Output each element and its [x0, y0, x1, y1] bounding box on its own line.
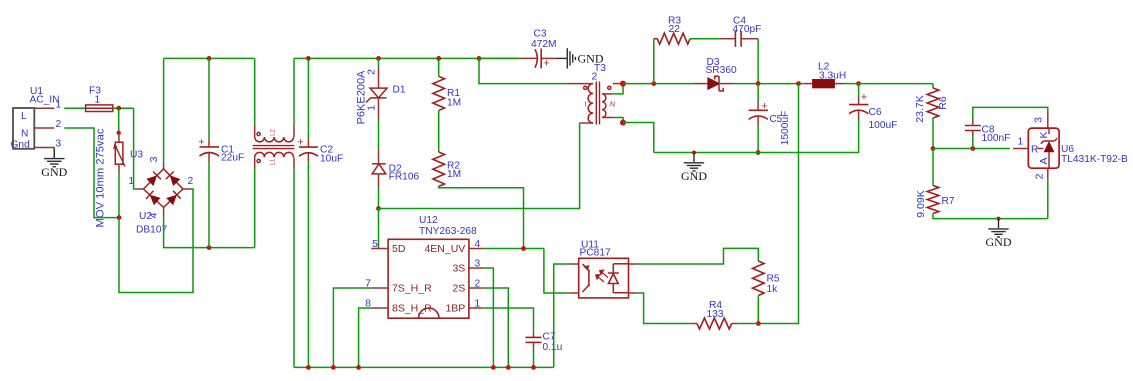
wire T3 secondary bottom elbow [613, 118, 623, 123]
wire R7 bottom / anode rail [933, 214, 1048, 219]
wire 2S down [484, 288, 509, 367]
resistor R2 1M [433, 152, 461, 186]
choke core [253, 145, 295, 147]
varistor U3 MOV [95, 128, 144, 227]
wire D2 to drain node [378, 188, 380, 209]
svg-text:1BP: 1BP [445, 303, 465, 315]
svg-text:3: 3 [475, 259, 481, 270]
capacitor C8 100nF [965, 119, 1011, 144]
svg-text:5: 5 [372, 238, 378, 250]
IC U6 TL431K-T92-B [1028, 128, 1059, 168]
wire opto emitter stub [569, 292, 578, 294]
ground GND (AC input) [44, 148, 64, 166]
ground GND (primary, rotated) [555, 48, 575, 68]
wire C1 top [208, 58, 210, 140]
wire L to fuse [64, 107, 85, 109]
svg-text:3S: 3S [452, 263, 465, 275]
resistor R7 9.09K [915, 149, 955, 218]
wire L2 to C6 [843, 83, 859, 85]
capacitor C2 10uF [297, 137, 343, 165]
svg-text:TNY263-268: TNY263-268 [419, 226, 477, 237]
svg-text:D1: D1 [393, 85, 406, 96]
wire MOV bottom [118, 173, 120, 218]
svg-text:U3: U3 [130, 150, 143, 161]
wire D1 top [378, 58, 380, 66]
junction C6 top [856, 81, 861, 86]
svg-text:5D: 5D [392, 243, 406, 255]
junction 8S [356, 365, 361, 370]
svg-text:2: 2 [56, 119, 62, 130]
wire EN to opto emitter [544, 249, 570, 294]
wire choke to bottom rail [293, 168, 295, 367]
wire C6 top [858, 84, 860, 97]
wire drain net [379, 123, 580, 209]
wire L to bridge pin1 [134, 108, 136, 189]
wire opto cathode to R4 [637, 293, 692, 324]
svg-text:1: 1 [475, 299, 481, 310]
junction C5/gnd rail [756, 150, 761, 155]
junction C4/C5 node [756, 81, 761, 86]
svg-text:10uF: 10uF [320, 154, 343, 165]
wire rail to choke top-left [254, 58, 256, 126]
svg-text:N: N [610, 102, 615, 109]
wire C5 bottom [757, 125, 759, 153]
wire C8 top to U6 K [973, 107, 1048, 119]
wire +DC rail left [164, 57, 255, 59]
svg-text:R5: R5 [767, 274, 780, 285]
svg-text:472M: 472M [531, 39, 556, 50]
fuse F3 [86, 86, 113, 112]
svg-text:100nF: 100nF [982, 133, 1011, 144]
svg-text:2: 2 [475, 279, 481, 290]
wire U1 pin3 to ground [53, 148, 55, 158]
svg-text:N: N [21, 129, 28, 140]
junction 3S [491, 365, 496, 370]
wire choke top-right to rail [293, 58, 295, 126]
wire C7 bottom [533, 349, 535, 368]
junction C8 bottom [970, 146, 975, 151]
wire choke bottom-left to DC- rail [254, 168, 256, 248]
wire U6 anode down [1047, 168, 1049, 179]
svg-text:3: 3 [148, 156, 160, 162]
capacitor C6 100uF [849, 91, 897, 131]
svg-text:L1: L1 [271, 158, 277, 165]
wire D3 to L2 [733, 83, 804, 85]
svg-text:9.09K: 9.09K [915, 190, 927, 217]
wire C6 bottom / secondary gnd rail [654, 119, 859, 153]
svg-text:L: L [21, 111, 27, 122]
junction 2S [506, 365, 511, 370]
inductor choke top winding [255, 126, 294, 142]
svg-text:22: 22 [669, 24, 681, 35]
svg-text:+: + [543, 58, 549, 70]
svg-text:1: 1 [129, 176, 135, 187]
svg-text:U12: U12 [419, 215, 438, 226]
svg-text:+: + [861, 91, 867, 103]
svg-text:R6: R6 [937, 96, 949, 110]
svg-text:C6: C6 [869, 107, 882, 118]
wire N to MOV node [64, 128, 119, 218]
wire bridge- rail [164, 217, 255, 248]
svg-text:1500uF: 1500uF [780, 111, 791, 146]
wire opto collector stub [569, 263, 578, 265]
svg-text:1k: 1k [767, 284, 779, 295]
junction C2/source [306, 365, 311, 370]
svg-text:4EN_UV: 4EN_UV [424, 243, 465, 255]
wire U6 pin3 stub [1047, 112, 1049, 128]
svg-text:8S_H_R: 8S_H_R [392, 303, 432, 315]
svg-text:470pF: 470pF [733, 24, 762, 35]
svg-text:SR360: SR360 [706, 65, 737, 76]
wire EN_UV net [484, 248, 544, 250]
svg-text:A: A [1038, 157, 1050, 164]
svg-text:3: 3 [56, 139, 62, 150]
svg-text:MOV 10mm 275vac: MOV 10mm 275vac [95, 128, 107, 227]
svg-text:FR106: FR106 [389, 172, 420, 183]
wire R1-R2 [438, 111, 440, 153]
wire C1 bottom [208, 161, 210, 248]
junction gnd [692, 151, 696, 155]
junction C2 top [306, 56, 311, 61]
svg-text:1: 1 [1018, 137, 1024, 148]
wire 3S down [484, 268, 494, 367]
wire T3 secondary top elbow [613, 84, 623, 94]
svg-text:GND: GND [41, 165, 67, 179]
svg-text:I: I [585, 102, 587, 109]
svg-text:GND: GND [681, 169, 707, 183]
svg-text:2: 2 [1034, 173, 1046, 179]
svg-text:0.1u: 0.1u [543, 342, 563, 353]
wire ref node [933, 148, 1010, 150]
wire BP to C7 [484, 308, 534, 332]
svg-text:7S_H_R: 7S_H_R [392, 283, 432, 295]
wire to MOV [118, 108, 120, 133]
capacitor C7 0.1u [526, 332, 563, 354]
wire opto to R5 top [637, 248, 758, 264]
junction gnd 2 [997, 217, 1001, 221]
junction feedback tap [796, 81, 801, 86]
wire rail to C3 [479, 57, 519, 59]
ground GND (secondary) [684, 153, 704, 171]
svg-text:2: 2 [592, 72, 598, 83]
wire fuse to bridge node [113, 107, 134, 109]
bridge rectifier U2 DB107 [136, 161, 191, 216]
svg-text:+: + [761, 100, 767, 112]
junction fuse/MOV node [116, 106, 121, 111]
junction drain node [376, 206, 381, 211]
wire R2 to EN node [439, 186, 524, 248]
IC U12 TNY263-268 [371, 239, 483, 318]
wire N loop to bridge pin2 [119, 189, 193, 293]
wire +DC rail right [294, 57, 519, 59]
wire C8 bottom [972, 136, 974, 149]
wire source rail to opto collector [554, 264, 570, 367]
svg-text:C3: C3 [534, 29, 547, 40]
wire D1 to D2 [378, 120, 380, 150]
svg-text:2: 2 [188, 176, 194, 187]
connector U1 AC_IN [11, 86, 62, 151]
resistor R3 22 [657, 16, 690, 45]
junction MOV top [117, 131, 121, 135]
svg-text:1: 1 [95, 95, 101, 106]
wire snubber left [653, 39, 655, 84]
resistor R4 133 [692, 300, 758, 329]
wire C5 top [757, 84, 759, 102]
wire R6 to ref node [932, 118, 934, 149]
junction T3 secondary top [620, 81, 626, 87]
svg-text:PC817: PC817 [580, 248, 611, 259]
junction C7 [531, 365, 536, 370]
svg-text:2S: 2S [452, 283, 465, 295]
junction ref node [931, 146, 936, 151]
capacitor C4 470pF [720, 16, 762, 47]
svg-text:+: + [297, 137, 303, 149]
capacitor C3 472M [519, 29, 556, 70]
junction snubber left [651, 81, 656, 86]
svg-text:K: K [1038, 131, 1050, 138]
wire opto cathode stub [629, 292, 638, 294]
wire 8S down [359, 308, 372, 367]
wire snubber right [757, 39, 759, 84]
svg-text:4: 4 [475, 239, 481, 250]
svg-text:L2: L2 [271, 129, 277, 136]
resistor R5 1k [753, 261, 780, 324]
transformer T3 [567, 63, 623, 125]
diode D1 P6KE200A [356, 67, 406, 125]
wire feedback to R4/R5 node [758, 84, 798, 324]
svg-text:23.7K: 23.7K [914, 95, 926, 122]
wire 7S down [333, 288, 371, 367]
wire R1 top [438, 58, 440, 76]
svg-text:R7: R7 [942, 196, 955, 207]
svg-text:100uF: 100uF [869, 120, 898, 131]
svg-text:3.3uH: 3.3uH [819, 71, 846, 82]
junction 7S [331, 365, 336, 370]
diode D3 SR360 [694, 57, 737, 91]
wire C2 top [307, 58, 309, 140]
wire source rail [294, 366, 554, 368]
svg-text:22uF: 22uF [221, 153, 244, 164]
wire C2 bottom [307, 162, 309, 368]
diode D2 FR106 [372, 150, 419, 188]
wire to U12 pin5 [378, 209, 380, 249]
junction C3 tap [477, 56, 482, 61]
junction D1 top [376, 56, 381, 61]
capacitor C1 22uF [198, 137, 244, 164]
junction R1 top [436, 56, 441, 61]
junction R5/R4/feedback [756, 321, 761, 326]
svg-text:TL431K-T92-B: TL431K-T92-B [1061, 154, 1128, 165]
resistor R6 23.7K [914, 84, 949, 123]
capacitor C5 1500uF [749, 100, 791, 145]
junction N/MOV [117, 215, 122, 220]
junction C1 bottom [207, 245, 212, 250]
svg-text:+: + [198, 137, 204, 149]
wire to T3 primary top [479, 58, 567, 83]
resistor R1 1M [433, 76, 461, 110]
junction C1 top [207, 56, 212, 61]
svg-text:1: 1 [56, 100, 62, 111]
svg-text:1M: 1M [447, 98, 461, 109]
svg-text:133: 133 [707, 309, 724, 320]
svg-text:DB107: DB107 [136, 225, 167, 236]
junction EN/R2 [521, 246, 526, 251]
wire bridge+ to rail [163, 58, 165, 161]
ground GND (feedback) [988, 219, 1008, 237]
svg-text:1M: 1M [447, 169, 461, 180]
svg-text:3: 3 [1033, 117, 1045, 123]
svg-text:U2: U2 [139, 211, 152, 222]
wire snubber middle [690, 38, 720, 40]
wire opto anode stub [629, 263, 638, 265]
svg-text:Gnd: Gnd [11, 140, 31, 151]
svg-text:P6KE200A: P6KE200A [356, 70, 368, 124]
wire T3 secondary bottom to gnd rail [623, 123, 654, 153]
inductor L2 3.3uH [804, 62, 846, 88]
svg-text:GND: GND [986, 235, 1012, 249]
wire secondary to D3 [623, 83, 694, 85]
optocoupler U11 PC817 [579, 258, 629, 298]
junction T3 secondary bottom [620, 120, 626, 126]
svg-text:R: R [1031, 145, 1038, 156]
inductor choke bottom winding [255, 152, 294, 168]
wire out rail to R6 [859, 83, 933, 85]
